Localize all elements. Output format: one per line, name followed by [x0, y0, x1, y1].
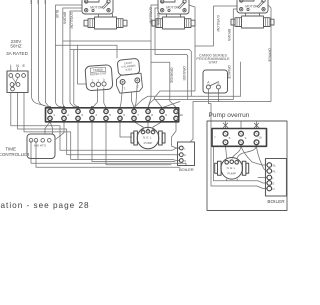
- svg-text:N: N: [16, 64, 19, 68]
- svg-text:STAT: STAT: [125, 67, 132, 72]
- svg-text:N: N: [273, 187, 275, 191]
- svg-text:ORANGE: ORANGE: [170, 68, 174, 84]
- svg-text:10: 10: [179, 113, 183, 117]
- svg-text:MOTOR: MOTOR: [166, 5, 179, 9]
- svg-text:3A RATED: 3A RATED: [6, 51, 29, 56]
- svg-text:PUMP: PUMP: [144, 141, 153, 145]
- svg-text:NEL: NEL: [227, 166, 237, 170]
- svg-text:L: L: [10, 64, 12, 68]
- svg-text:GY: GY: [43, 1, 46, 5]
- svg-text:BROWN: BROWN: [227, 29, 231, 42]
- svg-text:STAT: STAT: [208, 60, 218, 65]
- svg-text:CONTROLLER: CONTROLLER: [0, 152, 30, 157]
- svg-text:E: E: [273, 181, 275, 185]
- svg-text:50HZ: 50HZ: [10, 44, 21, 49]
- svg-text:BOILER: BOILER: [267, 199, 285, 204]
- svg-text:BOILER: BOILER: [179, 167, 194, 172]
- svg-text:BROWN: BROWN: [156, 13, 160, 26]
- svg-text:MOTOR: MOTOR: [90, 5, 103, 9]
- svg-text:NEL: NEL: [143, 136, 153, 140]
- svg-text:TIME: TIME: [5, 147, 16, 152]
- svg-text:G/YELLOW: G/YELLOW: [216, 15, 220, 32]
- svg-text:G/YELLOW: G/YELLOW: [149, 7, 153, 24]
- svg-text:BROWN: BROWN: [62, 12, 66, 25]
- svg-text:HW HTG: HW HTG: [34, 144, 47, 148]
- svg-text:SL: SL: [273, 163, 277, 167]
- svg-text:G/YELLOW: G/YELLOW: [70, 12, 74, 29]
- svg-text:Pump overrun: Pump overrun: [209, 112, 250, 119]
- svg-text:BN: BN: [29, 1, 32, 5]
- svg-text:BU: BU: [36, 1, 39, 5]
- svg-text:E: E: [23, 64, 26, 68]
- svg-text:N: N: [184, 160, 186, 163]
- svg-text:10: 10: [258, 136, 262, 140]
- svg-text:PL: PL: [273, 169, 277, 173]
- svg-text:MOTOR: MOTOR: [245, 4, 258, 8]
- svg-text:ORANGE: ORANGE: [267, 48, 271, 62]
- svg-text:ation - see page 28: ation - see page 28: [1, 201, 90, 210]
- svg-text:PUMP: PUMP: [227, 171, 236, 175]
- svg-text:ORANGE: ORANGE: [182, 66, 186, 81]
- svg-text:BLUE: BLUE: [55, 10, 59, 18]
